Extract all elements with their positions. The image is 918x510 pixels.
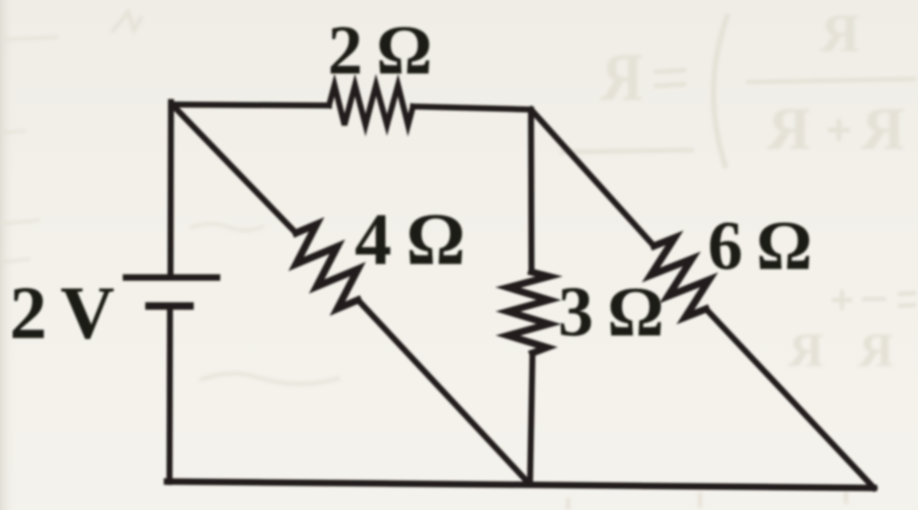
faint tall parenthesis	[713, 14, 728, 168]
faint fraction bar top-right	[746, 79, 916, 82]
svg-text:R: R	[820, 3, 860, 63]
resistor R1 2ohm zigzag	[329, 85, 413, 125]
svg-text:6 Ω: 6 Ω	[708, 208, 811, 285]
faint fraction bar left	[560, 150, 694, 152]
svg-text:R: R	[787, 324, 823, 377]
wire: bottom rail	[167, 482, 874, 489]
faint equals sign	[654, 70, 686, 86]
svg-text:R: R	[861, 96, 905, 162]
wire: diagonal from 4ohm to bottom junction	[358, 300, 530, 484]
svg-text:2 Ω: 2 Ω	[328, 13, 431, 90]
svg-text:R: R	[857, 324, 893, 377]
wire: top-right segment of top wire	[413, 107, 531, 110]
svg-text:R: R	[767, 96, 811, 162]
resistor R3 3ohm zigzag	[508, 272, 549, 353]
svg-text:R: R	[600, 40, 643, 115]
resistor R2 4ohm zigzag	[296, 224, 358, 308]
faint squiggle under 4 ohm diagonal	[200, 373, 340, 384]
svg-text:3 Ω: 3 Ω	[558, 274, 662, 352]
faint tick marks along bottom	[568, 490, 846, 510]
resistor R4 6ohm zigzag	[651, 238, 709, 317]
wire: diagonal from 6ohm to bottom-right corner	[706, 309, 874, 488]
wire: middle vertical lower segment	[530, 353, 533, 484]
faint mark top-left check stroke	[112, 12, 142, 32]
svg-text:4 Ω: 4 Ω	[355, 199, 464, 281]
svg-text:2 V: 2 V	[9, 272, 114, 355]
wire: left vertical from battery to bottom	[167, 306, 174, 482]
circuit drawing	[126, 85, 874, 488]
battery B1 short plate	[149, 302, 190, 310]
wire: diagonal from node A down to 4ohm	[172, 105, 296, 234]
wire: middle vertical upper segment	[528, 110, 535, 273]
faint streaks left margin	[0, 37, 58, 262]
wire: left vertical from node A to battery	[168, 102, 175, 274]
battery B1 long plate	[126, 274, 217, 281]
wire: diagonal from node B down to 6ohm	[531, 110, 654, 247]
wire: top-left segment of top wire	[172, 105, 329, 106]
faint wavy bleed left of 4 ohm	[190, 224, 264, 231]
faint plus and bar right middle	[832, 290, 916, 310]
